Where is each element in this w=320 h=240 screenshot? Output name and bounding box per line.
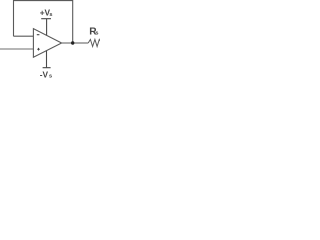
svg-text:s: s [49, 74, 52, 80]
op-amp non-inverting pin plus label [37, 48, 40, 51]
-Vs supply symbol (stem and bar) [43, 51, 51, 68]
junction node [71, 41, 74, 44]
svg-text:s: s [49, 12, 52, 18]
wire inverting input [14, 35, 34, 37]
svg-text:-V: -V [40, 69, 49, 79]
resistor Rs [88, 39, 101, 46]
wire output [62, 42, 89, 44]
op-amp inverting pin minus label [37, 34, 40, 36]
svg-text:s: s [95, 31, 98, 37]
+Vs supply symbol (bar and stem) [41, 19, 51, 36]
wire feedback loop (left leg, top, right leg) [14, 1, 73, 43]
wire non-inverting input [0, 48, 33, 50]
op-amp U1 [33, 29, 61, 58]
